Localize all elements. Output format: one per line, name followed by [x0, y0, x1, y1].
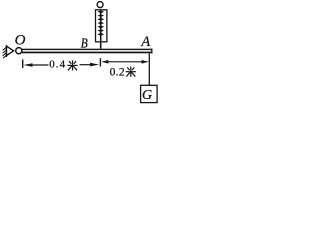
- beam bottom line: [22, 52, 153, 54]
- svg-text:G: G: [142, 88, 152, 103]
- dimension 0.4m left tick: [22, 60, 24, 69]
- pivot triangle: [7, 46, 14, 55]
- unit glyph mi (0.4米): [67, 60, 77, 70]
- unit glyph mi (0.2米): [126, 67, 136, 77]
- wall: [5, 45, 7, 57]
- svg-text:A: A: [140, 34, 150, 50]
- beam right end cap: [151, 49, 153, 54]
- dimension 0.4m right arrowhead: [90, 63, 99, 67]
- dimension 0.4m left shaft: [31, 64, 49, 66]
- beam top line: [22, 49, 153, 50]
- svg-text:B: B: [81, 35, 88, 50]
- weight box G: [141, 85, 158, 102]
- dimension 0.4m left arrowhead: [23, 63, 32, 67]
- svg-text:O: O: [15, 33, 26, 49]
- dimension 0.4m right shaft: [80, 64, 92, 66]
- svg-text:0.4: 0.4: [49, 59, 66, 71]
- cord from A to weight: [148, 53, 150, 85]
- spring coils: [97, 10, 104, 35]
- spring scale ring: [97, 2, 103, 8]
- dimension 0.2m shaft: [108, 61, 144, 63]
- spring scale body: [96, 10, 107, 42]
- spring shaft and hook: [100, 11, 102, 49]
- extension tick below B: [99, 58, 101, 66]
- dimension 0.2m right arrowhead: [142, 60, 149, 64]
- pivot circle at O: [16, 48, 22, 54]
- dimension 0.2m left arrowhead: [101, 60, 108, 64]
- wall hatching: [3, 47, 7, 58]
- svg-text:0.2: 0.2: [110, 66, 125, 78]
